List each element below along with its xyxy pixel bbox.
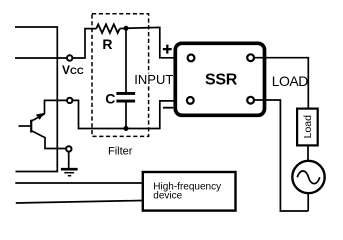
svg-text:R: R [102, 36, 112, 52]
svg-text:LOAD: LOAD [272, 73, 309, 89]
svg-text:Load: Load [302, 115, 314, 139]
svg-text:C: C [105, 91, 115, 107]
svg-text:SSR: SSR [205, 72, 238, 89]
svg-text:VCC: VCC [62, 63, 84, 77]
svg-text:Filter: Filter [108, 146, 133, 158]
svg-text:device: device [153, 190, 182, 201]
svg-text:INPUT: INPUT [134, 72, 173, 87]
